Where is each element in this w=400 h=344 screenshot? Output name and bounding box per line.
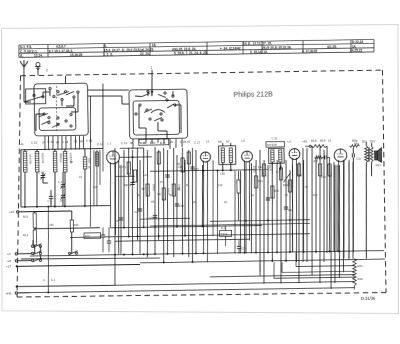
svg-text:C50: C50 [220, 171, 225, 175]
component field V4-V5 [302, 144, 355, 283]
svg-text:R7: R7 [141, 187, 145, 191]
svg-text:42: 42 [187, 140, 191, 144]
chassis dashed boundary [14, 70, 386, 298]
mains switch contacts [31, 239, 78, 262]
svg-text:L5: L5 [328, 138, 332, 142]
wire mid horizontals [115, 146, 269, 177]
svg-text:+HS: +HS [5, 291, 11, 295]
svg-text:C42: C42 [258, 166, 263, 169]
IF transformer N6/N7 [212, 143, 238, 254]
svg-text:C11: C11 [356, 156, 361, 160]
svg-text:0.5MD: 0.5MD [177, 184, 180, 191]
svg-text:22, 23,: 22, 23, [140, 52, 150, 56]
switch assembly S2 [129, 88, 188, 139]
svg-text:35.: 35. [88, 166, 92, 169]
svg-text:26: 26 [56, 140, 60, 144]
svg-text:38: 38 [130, 141, 134, 145]
svg-text:C 16: C 16 [47, 140, 54, 144]
capacitor C11 [352, 148, 363, 252]
svg-text:24.: 24. [79, 176, 83, 179]
svg-text:GOLFSP: GOLFSP [41, 153, 45, 164]
svg-text:N6: N6 [218, 140, 222, 144]
wire S1-S2 link b [87, 96, 122, 97]
svg-text:C 22: C 22 [140, 141, 147, 145]
svg-text:R20: R20 [313, 160, 318, 163]
svg-text:0.1MD: 0.1MD [261, 170, 264, 177]
svg-text:1000: 1000 [286, 181, 289, 187]
svg-text:50000: 50000 [253, 166, 256, 173]
svg-text:N7: N7 [226, 140, 230, 144]
svg-text:34: 34 [74, 139, 78, 143]
svg-text:Philips 212B: Philips 212B [233, 90, 273, 99]
antenna coil group L1/S1 coils [20, 148, 110, 208]
svg-text:50.: 50. [285, 194, 289, 197]
terminal 1 [150, 66, 153, 96]
svg-text:25,: 25, [131, 156, 135, 159]
svg-text:1, 2, 3,: 1, 2, 3, [103, 52, 113, 56]
svg-text:R30: R30 [85, 234, 90, 238]
svg-text:C2: C2 [134, 210, 138, 214]
svg-text:L2: L2 [206, 139, 210, 143]
svg-text:C 17: C 17 [194, 140, 201, 144]
wires switch drops [44, 82, 182, 151]
svg-text:C40: C40 [218, 184, 223, 187]
table row 1 text [20, 40, 364, 49]
svg-text:24,25,22: 24,25,22 [350, 48, 363, 52]
tube V3 [242, 151, 254, 253]
svg-text:M13: M13 [376, 163, 382, 167]
svg-text:1: 1 [150, 66, 152, 70]
wires right verticals [329, 160, 351, 289]
antenna [20, 60, 28, 72]
svg-text:C22: C22 [143, 174, 148, 177]
svg-text:41: 41 [20, 142, 24, 146]
svg-text:R14: R14 [23, 233, 29, 237]
switch assembly S1 [24, 83, 89, 136]
junction dots [113, 218, 339, 264]
bus wires [16, 215, 385, 293]
svg-text:2: 2 [46, 68, 48, 72]
earth terminal [35, 62, 41, 75]
svg-text:C 18: C 18 [62, 140, 69, 144]
svg-text:C29: C29 [241, 246, 246, 250]
svg-text:50.: 50. [118, 166, 122, 169]
svg-text:C 13: C 13 [121, 141, 128, 145]
svg-text:4(1: 4(1 [124, 184, 128, 187]
svg-text:C46: C46 [288, 208, 293, 212]
svg-text:R6: R6 [157, 192, 161, 196]
svg-text:C 2: C 2 [160, 140, 165, 144]
svg-text:9, 16,14, 10,: 9, 16,14, 10, [250, 50, 268, 54]
svg-text:C 28: C 28 [180, 140, 187, 144]
svg-text:24: 24 [42, 140, 46, 144]
svg-text:R1: R1 [122, 165, 126, 169]
svg-text:R13: R13 [274, 189, 279, 193]
resistors R1-R9 [122, 151, 191, 200]
svg-text:C 8: C 8 [47, 199, 52, 203]
trimmer row box [139, 139, 169, 145]
resistor R5a [237, 171, 241, 221]
svg-text:L3: L3 [241, 139, 245, 143]
table frame [19, 39, 374, 57]
svg-text:L4: L4 [287, 140, 291, 144]
svg-text:4(1,35,: 4(1,35, [327, 45, 337, 49]
wires mid field verticals [113, 146, 205, 285]
svg-text:m: m [43, 279, 45, 282]
table row 2 text [20, 44, 357, 53]
svg-text:R10: R10 [258, 179, 263, 183]
component row labels [20, 134, 375, 148]
table row 3 text [20, 48, 363, 57]
tube V2 [200, 152, 212, 262]
wire right staircase [260, 252, 355, 279]
component field V3-V4 [239, 148, 305, 284]
svg-text:R21: R21 [357, 264, 363, 268]
svg-text:-LT: -LT [6, 252, 11, 256]
svg-text:C 19: C 19 [86, 139, 93, 143]
svg-text:+55: +55 [302, 139, 307, 143]
svg-text:36: 36 [80, 139, 84, 143]
resistor R11 box [219, 225, 231, 246]
svg-text:R22: R22 [357, 277, 363, 281]
capacitor C29b [237, 240, 247, 254]
svg-text:MIDGLF: MIDGLF [59, 153, 63, 163]
svg-text:30.: 30. [251, 194, 255, 197]
svg-text:36.: 36. [70, 161, 74, 164]
svg-text:25,: 25, [224, 201, 228, 204]
svg-text:L.1: L.1 [107, 142, 112, 146]
tube V1 [106, 150, 153, 235]
value labels [70, 153, 327, 206]
svg-text:R18: R18 [311, 139, 317, 143]
svg-text:30.: 30. [137, 194, 141, 197]
tube V4 [289, 149, 302, 263]
svg-text:R19: R19 [320, 139, 326, 143]
supply terminals [5, 250, 141, 295]
svg-text:13,14,: 13,14, [34, 53, 43, 57]
svg-text:40.: 40. [305, 186, 309, 189]
svg-text:4, 17,(8,05: 4, 17,(8,05 [302, 49, 318, 53]
svg-text:C26: C26 [148, 216, 153, 220]
svg-text:R15: R15 [73, 223, 79, 227]
svg-text:R13: R13 [23, 214, 29, 218]
IF transformer N4 [266, 136, 285, 175]
svg-text:AANTSP: AANTSP [28, 154, 32, 165]
svg-text:25000: 25000 [269, 164, 272, 171]
svg-text:D.31/36: D.31/36 [361, 296, 376, 301]
svg-text:C 4: C 4 [58, 180, 63, 184]
svg-text:23: 23 [170, 140, 174, 144]
svg-text:20000: 20000 [152, 184, 155, 191]
coil group mid [89, 148, 104, 227]
svg-text:15,16,28: 15,16,28 [70, 53, 83, 57]
svg-text:C48: C48 [321, 176, 326, 179]
wire C1 lead [42, 207, 56, 294]
svg-text:+LT: +LT [6, 264, 11, 268]
resistor ladder R21 R22 [352, 258, 363, 289]
svg-text:C 14: C 14 [97, 142, 104, 146]
svg-text:C20: C20 [93, 186, 98, 189]
svg-text:40.: 40. [169, 194, 173, 197]
svg-text:-HT: -HT [6, 259, 11, 263]
wire antenna lead [23, 72, 26, 102]
output transformer + speaker [349, 141, 383, 259]
svg-text:A,: A, [20, 54, 23, 58]
svg-text:C45: C45 [297, 174, 302, 177]
svg-text:+50: +50 [49, 223, 54, 227]
wire terminal 2 drop [64, 76, 66, 84]
svg-text:C29: C29 [179, 204, 184, 208]
svg-text:19: 19 [150, 141, 154, 145]
svg-text:R17: R17 [313, 194, 318, 197]
svg-text:OSC: OSC [88, 158, 92, 164]
supply resistors R13-R15 [9, 208, 111, 254]
svg-text:C 1: C 1 [38, 170, 43, 174]
svg-text:20.: 20. [193, 201, 197, 204]
svg-text:C 10: C 10 [271, 136, 277, 140]
tube V5 [334, 149, 348, 258]
svg-text:522: 522 [370, 139, 375, 143]
svg-text:N4 500: N4 500 [267, 143, 277, 147]
svg-text:C 15: C 15 [31, 140, 38, 144]
wire S1-S2 link a [87, 89, 129, 90]
svg-text:C28: C28 [178, 166, 183, 169]
svg-text:+15: +15 [9, 210, 14, 214]
capacitors mid field [114, 167, 200, 223]
svg-text:C.1: C.1 [51, 278, 56, 282]
svg-text:R.2: R.2 [276, 171, 281, 174]
svg-text:+ ,34, (2,24/42: + ,34, (2,24/42 [220, 46, 241, 50]
svg-text:5, 29,6, 7, 21, 24, 8, 25,: 5, 29,6, 7, 21, 24, 8, 25, [174, 51, 208, 56]
